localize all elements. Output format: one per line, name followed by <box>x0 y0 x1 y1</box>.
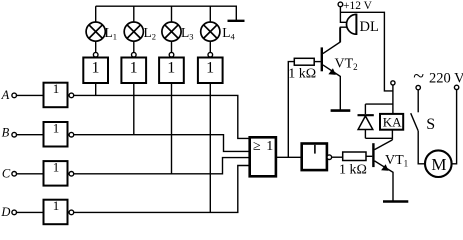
wire: input C to gate U5c <box>16 173 44 175</box>
inversion bubble of gate U5d <box>69 210 74 215</box>
wire: lamp L2 top lead <box>133 6 135 22</box>
lamp L1 <box>86 22 105 41</box>
inverter gate U4 (lamp L4 driver) <box>198 58 223 84</box>
input terminal D <box>12 210 17 215</box>
input terminal A <box>12 93 17 98</box>
svg-text:≥: ≥ <box>253 139 261 154</box>
inverter gate U2 (lamp L2 driver) <box>121 58 146 84</box>
wire: diode bottom rail to KA bottom <box>365 130 392 139</box>
transistor VT1 (NPN) <box>373 138 393 201</box>
svg-text:D: D <box>0 205 10 219</box>
inverter gate U1 (lamp L1 driver) <box>83 58 108 84</box>
inverter gate U5a (input A) <box>44 83 68 108</box>
svg-text:S: S <box>426 116 435 133</box>
svg-text:1: 1 <box>53 120 60 135</box>
svg-text:1: 1 <box>130 59 138 76</box>
wire: input B to gate U5b <box>16 134 44 136</box>
input terminal C <box>12 172 17 177</box>
svg-text:1: 1 <box>53 81 60 96</box>
gate U7 "1" mark <box>314 145 316 154</box>
wire: input D to gate U5d <box>16 211 44 213</box>
wire: lamp L4 top lead <box>209 6 211 22</box>
inverter gate U5b (input B) <box>44 122 68 147</box>
svg-text:1: 1 <box>167 59 175 76</box>
wire: lamp L3 top lead <box>171 6 173 22</box>
wire: +12V terminal to buzzer DL leads <box>340 7 347 43</box>
inversion bubble of gate U4 <box>208 52 213 57</box>
wire: U7 output to resistor R1 <box>332 156 343 158</box>
inversion bubble of gate U5b <box>69 132 74 137</box>
wire: +12V rail to relay branch <box>340 12 393 91</box>
wire: top lamp supply rail <box>96 6 237 21</box>
inversion bubble of gate U1 <box>93 52 98 57</box>
wire: U3 input from node C <box>171 83 173 174</box>
power rail bar (supply terminal) <box>228 20 245 22</box>
wire: lamp L1 bottom lead <box>95 41 97 52</box>
wire: terminal down to relay KA coil <box>392 85 394 114</box>
inversion bubble of gate U5c <box>69 172 74 177</box>
lamp L3 <box>162 22 181 41</box>
wire: motor M to right AC terminal <box>452 90 457 164</box>
AC supply terminal left (~220V) <box>416 85 420 89</box>
svg-text:M: M <box>431 155 446 174</box>
wire: left AC terminal to switch S <box>417 90 419 113</box>
diode VD (flyback) <box>358 115 374 138</box>
lamp L4 <box>201 22 220 41</box>
repeater gate U7 (1) <box>302 144 327 171</box>
wire: switch S to motor M <box>418 131 425 164</box>
svg-text:B: B <box>2 125 10 139</box>
relay branch terminal <box>391 81 395 85</box>
wire: net B-bar to OR gate input 2 <box>74 135 250 152</box>
AC supply terminal right (~220V) <box>454 85 458 89</box>
ground (VT2 emitter) <box>331 109 351 112</box>
wire: net A-bar to OR gate input 1 <box>74 95 250 138</box>
wire: net D-bar to OR gate input 4 <box>74 166 250 213</box>
inversion bubble of gate U5a <box>69 93 74 98</box>
svg-text:1 kΩ: 1 kΩ <box>339 163 367 178</box>
wire: U2 input from node B <box>133 83 135 135</box>
inversion bubble of gate U2 <box>132 52 137 57</box>
wire: input A to gate U5a <box>16 94 44 96</box>
resistor R1 (1 kOhm, VT1 base) <box>343 152 366 161</box>
svg-text:DL: DL <box>360 19 379 35</box>
wire: branch from OR output up to resistor R2 <box>288 62 294 158</box>
wire: U4 input from node D <box>209 83 211 212</box>
wire: OR gate output net <box>276 156 302 158</box>
wire: lamp L1 top lead <box>95 6 97 22</box>
motor M <box>425 150 452 177</box>
svg-text:+12 V: +12 V <box>343 0 373 12</box>
wire: lamp L2 bottom lead <box>133 41 135 52</box>
wire: lamp L4 bottom lead <box>209 41 211 52</box>
svg-text:1: 1 <box>206 59 214 76</box>
inverter gate U5d (input D) <box>44 200 68 225</box>
wire: lamp L3 bottom lead <box>171 41 173 52</box>
wire: R2 to VT2 base <box>314 61 321 63</box>
wire: U1 input from node A <box>95 83 97 95</box>
svg-text:220 V: 220 V <box>429 70 463 86</box>
input terminal B <box>12 132 17 137</box>
svg-text:~: ~ <box>413 66 424 88</box>
terminal +12 V <box>338 2 343 7</box>
svg-text:A: A <box>1 88 10 102</box>
inversion bubble of gate U3 <box>169 52 174 57</box>
svg-text:C: C <box>2 167 11 181</box>
svg-text:1: 1 <box>53 159 60 174</box>
OR gate U6 (>=1) <box>250 137 276 176</box>
svg-text:1: 1 <box>53 198 60 213</box>
inverter gate U3 (lamp L3 driver) <box>159 58 184 84</box>
inversion bubble of gate U7 <box>327 155 332 160</box>
transistor VT2 (NPN) <box>322 27 341 110</box>
wire: diode top rail <box>365 104 393 114</box>
wire: net C-bar to OR gate input 3 <box>74 158 250 174</box>
svg-text:KA: KA <box>383 115 402 130</box>
wire: R1 to VT1 base <box>366 155 372 157</box>
inverter gate U5c (input C) <box>44 161 68 186</box>
svg-text:1 kΩ: 1 kΩ <box>288 67 316 82</box>
svg-text:1: 1 <box>92 59 100 76</box>
buzzer DL body <box>347 14 357 35</box>
lamp L2 <box>124 22 143 41</box>
switch S blade <box>411 113 419 131</box>
ground (VT1 emitter) <box>383 200 408 203</box>
resistor R2 (1 kOhm, VT2 base) <box>294 58 314 65</box>
relay coil KA <box>380 114 403 130</box>
svg-text:1: 1 <box>266 139 273 154</box>
